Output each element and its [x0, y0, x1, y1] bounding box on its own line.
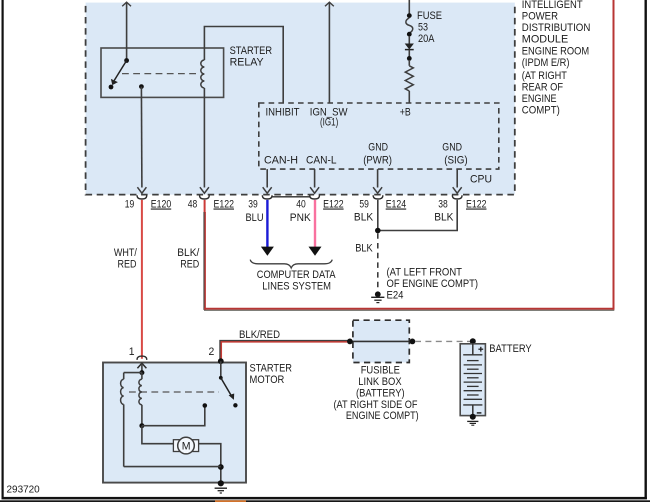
brace computer data lines	[250, 260, 332, 268]
svg-text:STARTER: STARTER	[250, 362, 293, 374]
wire junction down to motor	[142, 426, 174, 444]
svg-text:DISTRIBUTION: DISTRIBUTION	[522, 22, 591, 34]
CPU bottom pin labels	[264, 142, 492, 186]
junction node bottom	[218, 464, 224, 470]
BLK/RED wire from pin 48 / red highlight box	[204, 200, 205, 310]
svg-text:STARTER: STARTER	[230, 45, 273, 57]
svg-text:BLK/: BLK/	[177, 247, 200, 259]
svg-text:E122: E122	[323, 199, 344, 211]
page frame left	[2, 0, 4, 499]
page frame right	[645, 0, 647, 499]
svg-text:38: 38	[438, 199, 448, 211]
svg-text:53: 53	[418, 21, 428, 33]
wire from top into relay switch	[122, 2, 131, 61]
diode	[405, 44, 414, 50]
svg-text:(SIG): (SIG)	[444, 154, 468, 166]
CPU box (dashed)	[259, 103, 499, 169]
svg-text:(IG1): (IG1)	[320, 116, 338, 128]
BLK wire pin 38 down and left to junction	[378, 200, 457, 231]
svg-text:LINES SYSTEM: LINES SYSTEM	[262, 281, 331, 293]
ground node on box edge	[218, 480, 224, 486]
relay switch released contact dot	[109, 85, 114, 90]
svg-text:2: 2	[209, 346, 215, 358]
resistor	[405, 66, 413, 91]
wire GND(PWR) to pin 59	[373, 169, 382, 193]
starter mechanical dashed link	[129, 391, 219, 393]
switch contact dot	[233, 403, 237, 407]
svg-text:FUSIBLE: FUSIBLE	[361, 365, 400, 377]
fuse 53 symbol	[406, 18, 413, 33]
svg-text:(AT RIGHT SIDE OF: (AT RIGHT SIDE OF	[334, 399, 418, 411]
junction node on hold winding	[139, 423, 144, 428]
right winding (hold-in coil)	[139, 373, 142, 426]
relay switch arm	[111, 61, 127, 86]
ground E24	[371, 291, 384, 302]
red highlight box right edge	[613, 0, 615, 310]
cup pin 38	[452, 195, 462, 199]
svg-text:(PWR): (PWR)	[363, 154, 392, 166]
label STARTER RELAY	[230, 45, 273, 69]
svg-text:BLK: BLK	[434, 212, 454, 224]
label FUSIBLE LINK BOX	[334, 365, 419, 423]
orange strip segment	[215, 500, 246, 502]
pin 2 switch arm	[219, 361, 234, 400]
svg-text:POWER: POWER	[522, 11, 558, 23]
IPDM E/R module box (dashed, cut off at top)	[0, 0, 650, 195]
cup pin 59	[373, 195, 383, 199]
svg-text:E122: E122	[214, 199, 235, 211]
svg-text:BLK: BLK	[355, 243, 373, 255]
left winding (pull-in coil)	[121, 373, 124, 467]
svg-text:(IPDM E/R): (IPDM E/R)	[522, 57, 570, 69]
label FUSE 53 20A	[417, 10, 442, 45]
svg-text:(AT RIGHT: (AT RIGHT	[522, 70, 567, 82]
wire CAN-L to pin 40	[310, 169, 319, 193]
fusible link box	[353, 320, 409, 362]
wire: relay coil top to CPU INHIBIT	[204, 27, 283, 104]
red highlight box bottom edge	[204, 309, 614, 311]
svg-text:BATTERY: BATTERY	[489, 343, 532, 355]
junction node	[375, 228, 381, 234]
relay coil L1	[201, 48, 205, 97]
svg-text:REAR OF: REAR OF	[522, 81, 563, 93]
BLK/RED wire to fusible link and starter pin 2	[221, 341, 350, 360]
svg-text:INHIBIT: INHIBIT	[266, 107, 300, 119]
IPDM title text right side	[522, 0, 591, 117]
svg-text:BLU: BLU	[246, 212, 264, 224]
svg-text:MODULE: MODULE	[522, 34, 568, 46]
svg-text:CPU: CPU	[470, 174, 492, 186]
svg-text:(BATTERY): (BATTERY)	[356, 387, 405, 399]
PNK wire pin 40	[309, 200, 322, 256]
svg-text:COMPUTER DATA: COMPUTER DATA	[257, 269, 336, 281]
svg-text:CAN-L: CAN-L	[306, 154, 337, 166]
BLU wire pin 39	[261, 200, 274, 256]
wire motor to right down	[199, 444, 221, 484]
wire to left winding	[124, 372, 142, 374]
wire CAN-H to pin 39	[263, 169, 272, 193]
label COMPUTER DATA LINES SYSTEM	[257, 269, 336, 293]
relay mechanical dashed link	[122, 73, 198, 75]
wire through fusible link box	[350, 340, 413, 342]
svg-text:FUSE: FUSE	[417, 10, 442, 22]
label BLK/RED (pin 48)	[177, 247, 200, 271]
wire junction to solenoid contact	[142, 407, 205, 426]
svg-text:19: 19	[125, 199, 135, 211]
svg-text:RED: RED	[180, 259, 199, 271]
svg-text:COMPT): COMPT)	[522, 105, 560, 117]
wire from top to CPU IGN_SW	[325, 2, 334, 103]
cup pin 48	[200, 195, 210, 199]
starter motor box	[103, 363, 246, 483]
page frame bottom	[2, 497, 647, 500]
cup pin 39	[262, 195, 272, 199]
svg-text:E120: E120	[151, 199, 171, 211]
svg-text:M: M	[182, 441, 191, 453]
svg-text:ENGINE ROOM: ENGINE ROOM	[522, 46, 589, 58]
relay switch common node	[124, 58, 129, 63]
svg-text:RED: RED	[118, 259, 137, 271]
junction node right	[410, 339, 416, 345]
relay switch output contact	[139, 84, 144, 89]
solenoid contact dot	[203, 403, 208, 408]
svg-text:OF ENGINE COMPT): OF ENGINE COMPT)	[387, 278, 479, 290]
junction node left	[347, 339, 353, 345]
starter pin 2 node	[218, 358, 224, 364]
svg-text:ENGINE: ENGINE	[522, 93, 557, 105]
wire: relay coil down to pin 48	[200, 97, 209, 193]
wire: relay contact down to pin 19	[137, 87, 146, 194]
svg-text:GND: GND	[368, 142, 388, 154]
svg-text:48: 48	[188, 199, 198, 211]
svg-text:20A: 20A	[418, 33, 435, 45]
svg-text:E122: E122	[466, 199, 487, 211]
label STARTER MOTOR	[250, 362, 293, 386]
joint connector line 39-40	[272, 196, 310, 198]
svg-text:39: 39	[248, 199, 257, 211]
svg-text:CAN-H: CAN-H	[264, 154, 298, 166]
BLK wire pin 59 down to junction	[377, 200, 379, 231]
pin number labels	[125, 199, 487, 225]
starter pin 1 cup	[137, 356, 147, 360]
starter ground	[215, 488, 227, 493]
svg-text:+B: +B	[400, 107, 411, 119]
svg-text:GND: GND	[442, 142, 462, 154]
battery	[460, 338, 485, 425]
cup pin 40	[310, 195, 320, 199]
WHT/RED wire (pin 19 to starter pin 1)	[141, 200, 143, 359]
svg-text:40: 40	[296, 199, 306, 211]
svg-text:PNK: PNK	[290, 212, 312, 224]
motor M	[173, 437, 198, 454]
wire left winding bottom to junction	[124, 466, 221, 468]
CPU top pin labels	[266, 107, 411, 129]
svg-text:INTELLIGENT: INTELLIGENT	[522, 0, 583, 11]
node under pin 1	[139, 370, 144, 375]
next page edge strip	[0, 500, 650, 502]
svg-text:(AT LEFT FRONT: (AT LEFT FRONT	[387, 266, 463, 278]
label WHT/RED	[114, 247, 138, 271]
wire GND(SIG) to pin 38	[453, 169, 462, 193]
svg-text:BLK: BLK	[354, 212, 374, 224]
svg-text:E24: E24	[387, 289, 404, 301]
starter relay R1 box	[101, 48, 224, 97]
label E24 and location	[387, 266, 479, 301]
svg-text:293720: 293720	[7, 485, 41, 496]
svg-text:E124: E124	[386, 199, 407, 211]
svg-text:ENGINE COMPT): ENGINE COMPT)	[346, 410, 419, 422]
dashed wire to battery	[415, 340, 470, 342]
svg-text:59: 59	[359, 199, 369, 211]
svg-text:WHT/: WHT/	[114, 247, 138, 259]
svg-text:LINK BOX: LINK BOX	[358, 376, 402, 388]
cup pin 19	[137, 195, 147, 199]
fuse 53 circuit from top to +B	[405, 0, 414, 103]
svg-text:BLK/RED: BLK/RED	[239, 329, 280, 341]
dashed wire to ground E24	[377, 233, 379, 289]
svg-text:1: 1	[129, 346, 135, 358]
starter pin 1 entry arrow	[137, 363, 146, 372]
svg-text:MOTOR: MOTOR	[250, 374, 285, 386]
connector cups on IPDM bottom edge	[137, 195, 462, 199]
svg-text:RELAY: RELAY	[230, 57, 265, 69]
